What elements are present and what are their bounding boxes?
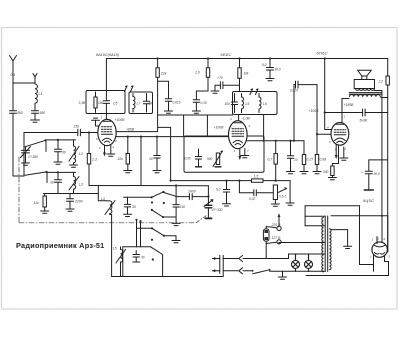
label pin digits V3 <box>327 115 347 152</box>
potentiometer 0,5-1M <box>273 185 286 200</box>
V2 heater arrow <box>238 150 241 161</box>
resistor 12k <box>43 194 46 211</box>
ground at S3a <box>172 241 180 243</box>
svg-text:7: 7 <box>247 149 249 153</box>
svg-text:0,15: 0,15 <box>201 101 207 105</box>
wire: right HV rail <box>387 59 389 77</box>
svg-text:500: 500 <box>207 157 213 161</box>
svg-text:+100В: +100В <box>214 126 225 130</box>
capacitor 30 (range 2) <box>55 172 62 193</box>
wire V1 output <box>116 136 228 138</box>
diode load box <box>184 136 264 172</box>
svg-text:1,3: 1,3 <box>92 158 97 162</box>
wire AF bus riser to diode box <box>158 127 172 181</box>
capacitor +70 decoupling <box>215 82 240 91</box>
svg-text:127 В: 127 В <box>272 236 282 240</box>
inductor L6 <box>259 94 261 113</box>
ground below 0,68 <box>313 172 321 174</box>
svg-text:6Ц5С: 6Ц5С <box>363 198 374 203</box>
wire screen dropper <box>157 59 159 132</box>
wire wafer bottom bus <box>112 276 224 278</box>
wire detector column <box>175 184 177 222</box>
ground below electrolytic <box>266 79 274 81</box>
label pin digits V2 <box>230 117 251 153</box>
wire bottom of antenna branch <box>13 175 24 177</box>
wire +85V feed <box>116 131 158 133</box>
capacitor 140 <box>173 205 179 207</box>
svg-text:L5: L5 <box>246 102 250 106</box>
svg-text:1: 1 <box>99 146 101 150</box>
node dots in wafer <box>152 258 154 260</box>
antenna W1 <box>10 56 17 84</box>
V3 pin2 ground <box>340 147 348 160</box>
wire L4 down to wafer <box>110 215 112 277</box>
wire lamp bus upper <box>289 254 326 259</box>
V3 cathode resistor 300 <box>328 145 338 180</box>
inductor L5 <box>242 94 244 113</box>
svg-text:68: 68 <box>149 102 153 106</box>
ground at power <box>279 271 287 279</box>
svg-text:2,2: 2,2 <box>378 80 384 84</box>
capacitor 0,05 <box>195 149 201 167</box>
oscillator box with L7 <box>129 92 153 114</box>
wire antenna to L1 <box>13 82 35 84</box>
trimmer arrows between boxes <box>125 86 134 92</box>
ground below 0,15 <box>192 111 200 113</box>
OT primary <box>350 95 381 97</box>
svg-text:10: 10 <box>294 158 298 162</box>
svg-text:2200: 2200 <box>74 200 83 204</box>
wire screen feed <box>325 59 332 130</box>
svg-text:L6: L6 <box>263 102 267 106</box>
capacitor 0,025 coupling <box>294 81 317 141</box>
node dot <box>381 215 383 217</box>
wire mains lower <box>223 268 252 274</box>
wire AF bus <box>171 180 290 182</box>
wire V3 plate to OT <box>342 99 349 123</box>
svg-text:100: 100 <box>225 102 231 106</box>
wire fuse links <box>266 227 277 244</box>
wire mains upper <box>223 256 288 262</box>
pilot lamp L1 <box>292 254 300 271</box>
wire AVC return <box>89 185 208 187</box>
capacitor 0,15 <box>193 100 199 111</box>
ground below 5,0 <box>223 204 231 206</box>
node spare contact <box>151 239 153 241</box>
V1 cathode ground <box>107 145 115 156</box>
ground below L2 <box>70 165 78 167</box>
wire branch to 0,015 <box>158 81 169 98</box>
svg-text:0,27: 0,27 <box>307 158 314 162</box>
inductor L1 <box>35 84 37 103</box>
wire AF to volume control <box>239 181 253 193</box>
inductor L3 <box>69 172 79 193</box>
svg-text:+: + <box>361 171 363 175</box>
wire heater bottom bus <box>306 275 389 277</box>
ground at V1 shield <box>92 118 100 126</box>
svg-text:1,5: 1,5 <box>254 175 259 179</box>
svg-text:220 В: 220 В <box>271 223 282 227</box>
svg-text:3,3В: 3,3В <box>79 101 86 105</box>
svg-text:6: 6 <box>96 137 98 141</box>
V4 heater return <box>385 256 389 276</box>
wire primary tap top2 <box>305 215 325 217</box>
capacitor 30 (range 1) <box>55 140 62 162</box>
voltage selector circles <box>277 226 281 244</box>
resistor 22k (AVC) <box>126 136 129 171</box>
svg-text:-1,0В: -1,0В <box>242 117 251 121</box>
tube V1 6A10 <box>98 119 116 145</box>
inductor L2 <box>69 140 79 165</box>
rectifier tube V4 <box>372 242 387 257</box>
svg-text:5: 5 <box>249 124 251 128</box>
svg-text:+100В: +100В <box>115 118 126 122</box>
oscillator box with C5 <box>86 91 125 114</box>
wire contact feeders <box>135 219 141 247</box>
ground below C1 <box>22 163 30 165</box>
svg-text:680: 680 <box>40 111 46 115</box>
resistor 1,5 <box>252 179 264 182</box>
node bus to band switch <box>23 133 25 177</box>
wire V1 anode to IFT <box>158 114 233 116</box>
svg-text:180: 180 <box>98 101 104 105</box>
svg-text:2: 2 <box>112 145 115 149</box>
variable capacitor C1 <box>21 147 31 163</box>
svg-text:30: 30 <box>141 256 145 260</box>
resistor 0,27 <box>302 141 305 171</box>
output transformer OT box <box>354 80 374 91</box>
svg-text:L3: L3 <box>79 183 83 187</box>
inductor L8 in wafer <box>116 247 126 277</box>
tube V2 6B8 <box>229 121 248 149</box>
wire IFT shield hangers <box>184 115 208 136</box>
svg-text:3: 3 <box>230 117 232 121</box>
loudspeaker Гр <box>358 70 372 79</box>
resistor 22k (screen) <box>156 68 159 78</box>
svg-text:L4: L4 <box>101 197 105 201</box>
ground below pot <box>271 200 279 207</box>
svg-text:0,05: 0,05 <box>185 157 191 161</box>
IF transformer box IFT1 <box>233 92 278 115</box>
svg-text:1: 1 <box>378 237 380 241</box>
label pin digits V1 <box>96 137 117 150</box>
wire fuse to mains <box>265 244 267 259</box>
switch mains blade <box>252 269 271 274</box>
mains plug <box>212 255 223 276</box>
svg-text:6Б8С: 6Б8С <box>221 52 232 57</box>
wire OT primary right to rail <box>381 97 388 99</box>
capacitor 680 (antenna) <box>10 83 17 176</box>
V3 heater arrow <box>335 145 338 159</box>
node junction <box>140 136 142 186</box>
dash-dot mechanical link horizontal <box>19 216 206 223</box>
svg-text:L1: L1 <box>39 92 43 96</box>
wire +100V line with cap <box>325 109 388 116</box>
resistor 0,7 <box>274 141 277 181</box>
svg-text:10: 10 <box>149 157 153 161</box>
fuse Pr1 <box>263 229 269 242</box>
trimmer arrows IFT1 <box>250 89 258 95</box>
switch S3a blade <box>151 227 165 237</box>
wire HV center tap to ground <box>331 230 352 249</box>
ground below 0,015 <box>165 111 173 113</box>
ground below 22k <box>124 171 132 173</box>
node contact dots S2 <box>151 201 165 204</box>
switch S1a blade <box>25 139 47 147</box>
pilot lamp L2 <box>305 254 313 271</box>
ground below 2200 <box>66 209 74 211</box>
svg-text:5Н90: 5Н90 <box>360 119 368 123</box>
capacitor 30 in wafer <box>133 251 140 263</box>
svg-text:L5: L5 <box>113 247 117 251</box>
node dots on V2 output <box>263 140 296 142</box>
wire S2a link to detector column <box>163 192 176 196</box>
wire HV secondary top <box>331 215 388 217</box>
capacitor 30 (detector) <box>124 197 130 214</box>
ground at +70 cap <box>211 91 219 93</box>
svg-text:22к: 22к <box>160 72 167 76</box>
power transformer T core <box>325 216 328 272</box>
inductor L4 <box>98 185 115 214</box>
wire primary tap top <box>305 225 325 227</box>
capacitor 150 series in grid lead <box>78 129 81 135</box>
trimmer arrow at L1 <box>33 74 37 84</box>
svg-text:0,015: 0,015 <box>173 101 181 105</box>
switch S2a blade <box>151 191 165 199</box>
wire to S3a <box>137 227 153 229</box>
svg-text:1: 1 <box>370 255 372 259</box>
svg-text:0,02: 0,02 <box>249 197 255 201</box>
resistor 0,68 <box>315 133 318 171</box>
ground below 12k <box>41 211 49 213</box>
ground below 680 <box>31 120 40 122</box>
svg-text:+185В: +185В <box>344 103 355 107</box>
wafer switch box <box>123 247 163 277</box>
switch S1b blade <box>25 171 48 183</box>
ground below detector column <box>172 223 180 225</box>
wire selector tick <box>278 213 281 226</box>
wire V2 output <box>247 140 304 142</box>
svg-text:0,68: 0,68 <box>320 158 327 162</box>
svg-text:30: 30 <box>132 205 136 209</box>
wire diode output <box>176 196 208 198</box>
wire B+ drop <box>304 206 306 226</box>
capacitor 68 in box2 <box>143 94 149 113</box>
inductor L7 <box>133 94 135 113</box>
svg-text:30: 30 <box>62 151 66 155</box>
svg-text:6А10С(6А15): 6А10С(6А15) <box>96 53 120 57</box>
capacitor 100 in IFT1 <box>231 94 237 113</box>
svg-text:4: 4 <box>115 139 117 143</box>
V4 plate leads <box>382 216 388 252</box>
V1 heater lead with arrow <box>103 145 106 156</box>
wire S1a to L2 <box>46 139 76 152</box>
svg-text:0,5-1: 0,5-1 <box>279 195 286 199</box>
capacitor 0,02 <box>254 190 273 196</box>
wire S3a to ground <box>164 236 176 240</box>
wire grid bus to V1 <box>24 132 99 134</box>
svg-text:1,0: 1,0 <box>195 71 200 75</box>
dash-dot mechanical link vertical <box>18 157 20 223</box>
svg-text:3: 3 <box>101 116 103 120</box>
svg-text:22к: 22к <box>117 157 124 161</box>
ground below 30 <box>54 162 62 164</box>
svg-text:17-380: 17-380 <box>28 155 38 159</box>
svg-text:С5: С5 <box>113 102 117 106</box>
svg-text:140: 140 <box>180 205 186 209</box>
node rail junctions <box>157 57 326 59</box>
svg-text:30,0: 30,0 <box>374 172 380 176</box>
resistor 1,3 <box>87 131 90 185</box>
svg-text:300: 300 <box>323 170 329 174</box>
svg-text:0,1: 0,1 <box>11 73 16 77</box>
svg-text:+85В: +85В <box>126 127 135 131</box>
filter cap 30,0 <box>364 160 387 190</box>
electrolytic 5,0 cathode <box>223 181 229 204</box>
T secondary winding <box>329 229 331 270</box>
capacitor 10 (AF coupling) <box>287 141 293 171</box>
svg-text:5: 5 <box>329 140 331 144</box>
svg-text:5: 5 <box>389 255 391 259</box>
ground below 30 <box>124 214 132 216</box>
svg-text:680: 680 <box>17 111 23 115</box>
svg-text:1М: 1М <box>244 72 249 76</box>
ground below 10 <box>153 171 161 173</box>
svg-text:150: 150 <box>74 125 80 129</box>
resistor in box1 <box>94 92 97 113</box>
V4 cathode lead <box>373 256 375 272</box>
V2 cathode ground <box>241 149 249 158</box>
wire S2b to ground <box>163 216 176 218</box>
ground at AF bus end <box>286 181 294 206</box>
wire IFT1 to V2 grid cap <box>238 115 240 121</box>
capacitor C5 in box1 <box>103 101 109 104</box>
resistor 1M <box>238 59 241 92</box>
T primary winding <box>322 218 324 272</box>
svg-text:30,0: 30,0 <box>275 68 281 72</box>
capacitor 680 (L1 bottom) <box>32 103 39 119</box>
tube V3 6P6S <box>331 122 349 145</box>
node dots AF bus <box>225 180 276 182</box>
OT core <box>349 93 382 95</box>
wire detector line left segment <box>124 196 152 198</box>
svg-text:2Н00: 2Н00 <box>187 190 196 194</box>
capacitor 2200 <box>67 194 74 209</box>
svg-text:6П6С: 6П6С <box>317 51 328 56</box>
wire IFT1 secondary down <box>263 115 265 141</box>
svg-text:L2: L2 <box>79 152 83 156</box>
svg-text:L7: L7 <box>137 102 141 106</box>
wire grid-cap line through box1 <box>105 59 107 120</box>
svg-text:+70: +70 <box>217 76 223 80</box>
wire speaker coil return <box>375 91 382 216</box>
label pin digits V4 <box>370 237 391 259</box>
svg-text:1: 1 <box>344 115 346 119</box>
V4 second plate stub <box>376 237 378 244</box>
svg-text:5,0: 5,0 <box>216 188 221 192</box>
electrolytic 5,0x30,0 <box>267 59 274 79</box>
svg-text:Радиоприемник Арз-51: Радиоприемник Арз-51 <box>16 241 105 250</box>
svg-text:4: 4 <box>327 126 329 130</box>
svg-text:6: 6 <box>384 237 386 241</box>
svg-text:+100В: +100В <box>309 109 320 113</box>
wire B+ distribution <box>305 205 359 207</box>
switch S2b blade <box>151 209 164 218</box>
svg-text:5,0: 5,0 <box>262 63 267 67</box>
svg-text:12к: 12к <box>34 201 40 205</box>
svg-text:1: 1 <box>372 238 374 242</box>
capacitor 30 at L4 <box>127 196 129 198</box>
wire AVC bus <box>44 193 99 195</box>
svg-text:30: 30 <box>50 181 54 185</box>
trimmer 500 <box>213 151 223 167</box>
svg-text:0,7: 0,7 <box>268 158 273 162</box>
wire rectifier cathode riser <box>360 206 374 265</box>
ground below 0,27 <box>300 172 308 174</box>
capacitor 10 <box>154 136 160 171</box>
svg-text:0,025: 0,025 <box>290 89 298 93</box>
resistor 2,2k on rail <box>386 76 389 85</box>
node: +A supply rail <box>106 58 387 60</box>
svg-text:47÷330: 47÷330 <box>212 208 223 212</box>
node dot <box>324 111 326 113</box>
wire selector to primary tap <box>279 243 325 244</box>
resistor 1,0 <box>196 59 209 100</box>
capacitor 2H00 series <box>189 194 192 200</box>
wire lamp bus lower <box>270 270 326 272</box>
trimmer 47-330 <box>204 186 213 219</box>
wire S1b to L3 <box>47 171 76 173</box>
wire to V3 grid <box>317 85 331 135</box>
ground below cap <box>287 172 295 174</box>
capacitor 0,015 <box>165 99 171 111</box>
svg-text:1: 1 <box>234 149 236 153</box>
